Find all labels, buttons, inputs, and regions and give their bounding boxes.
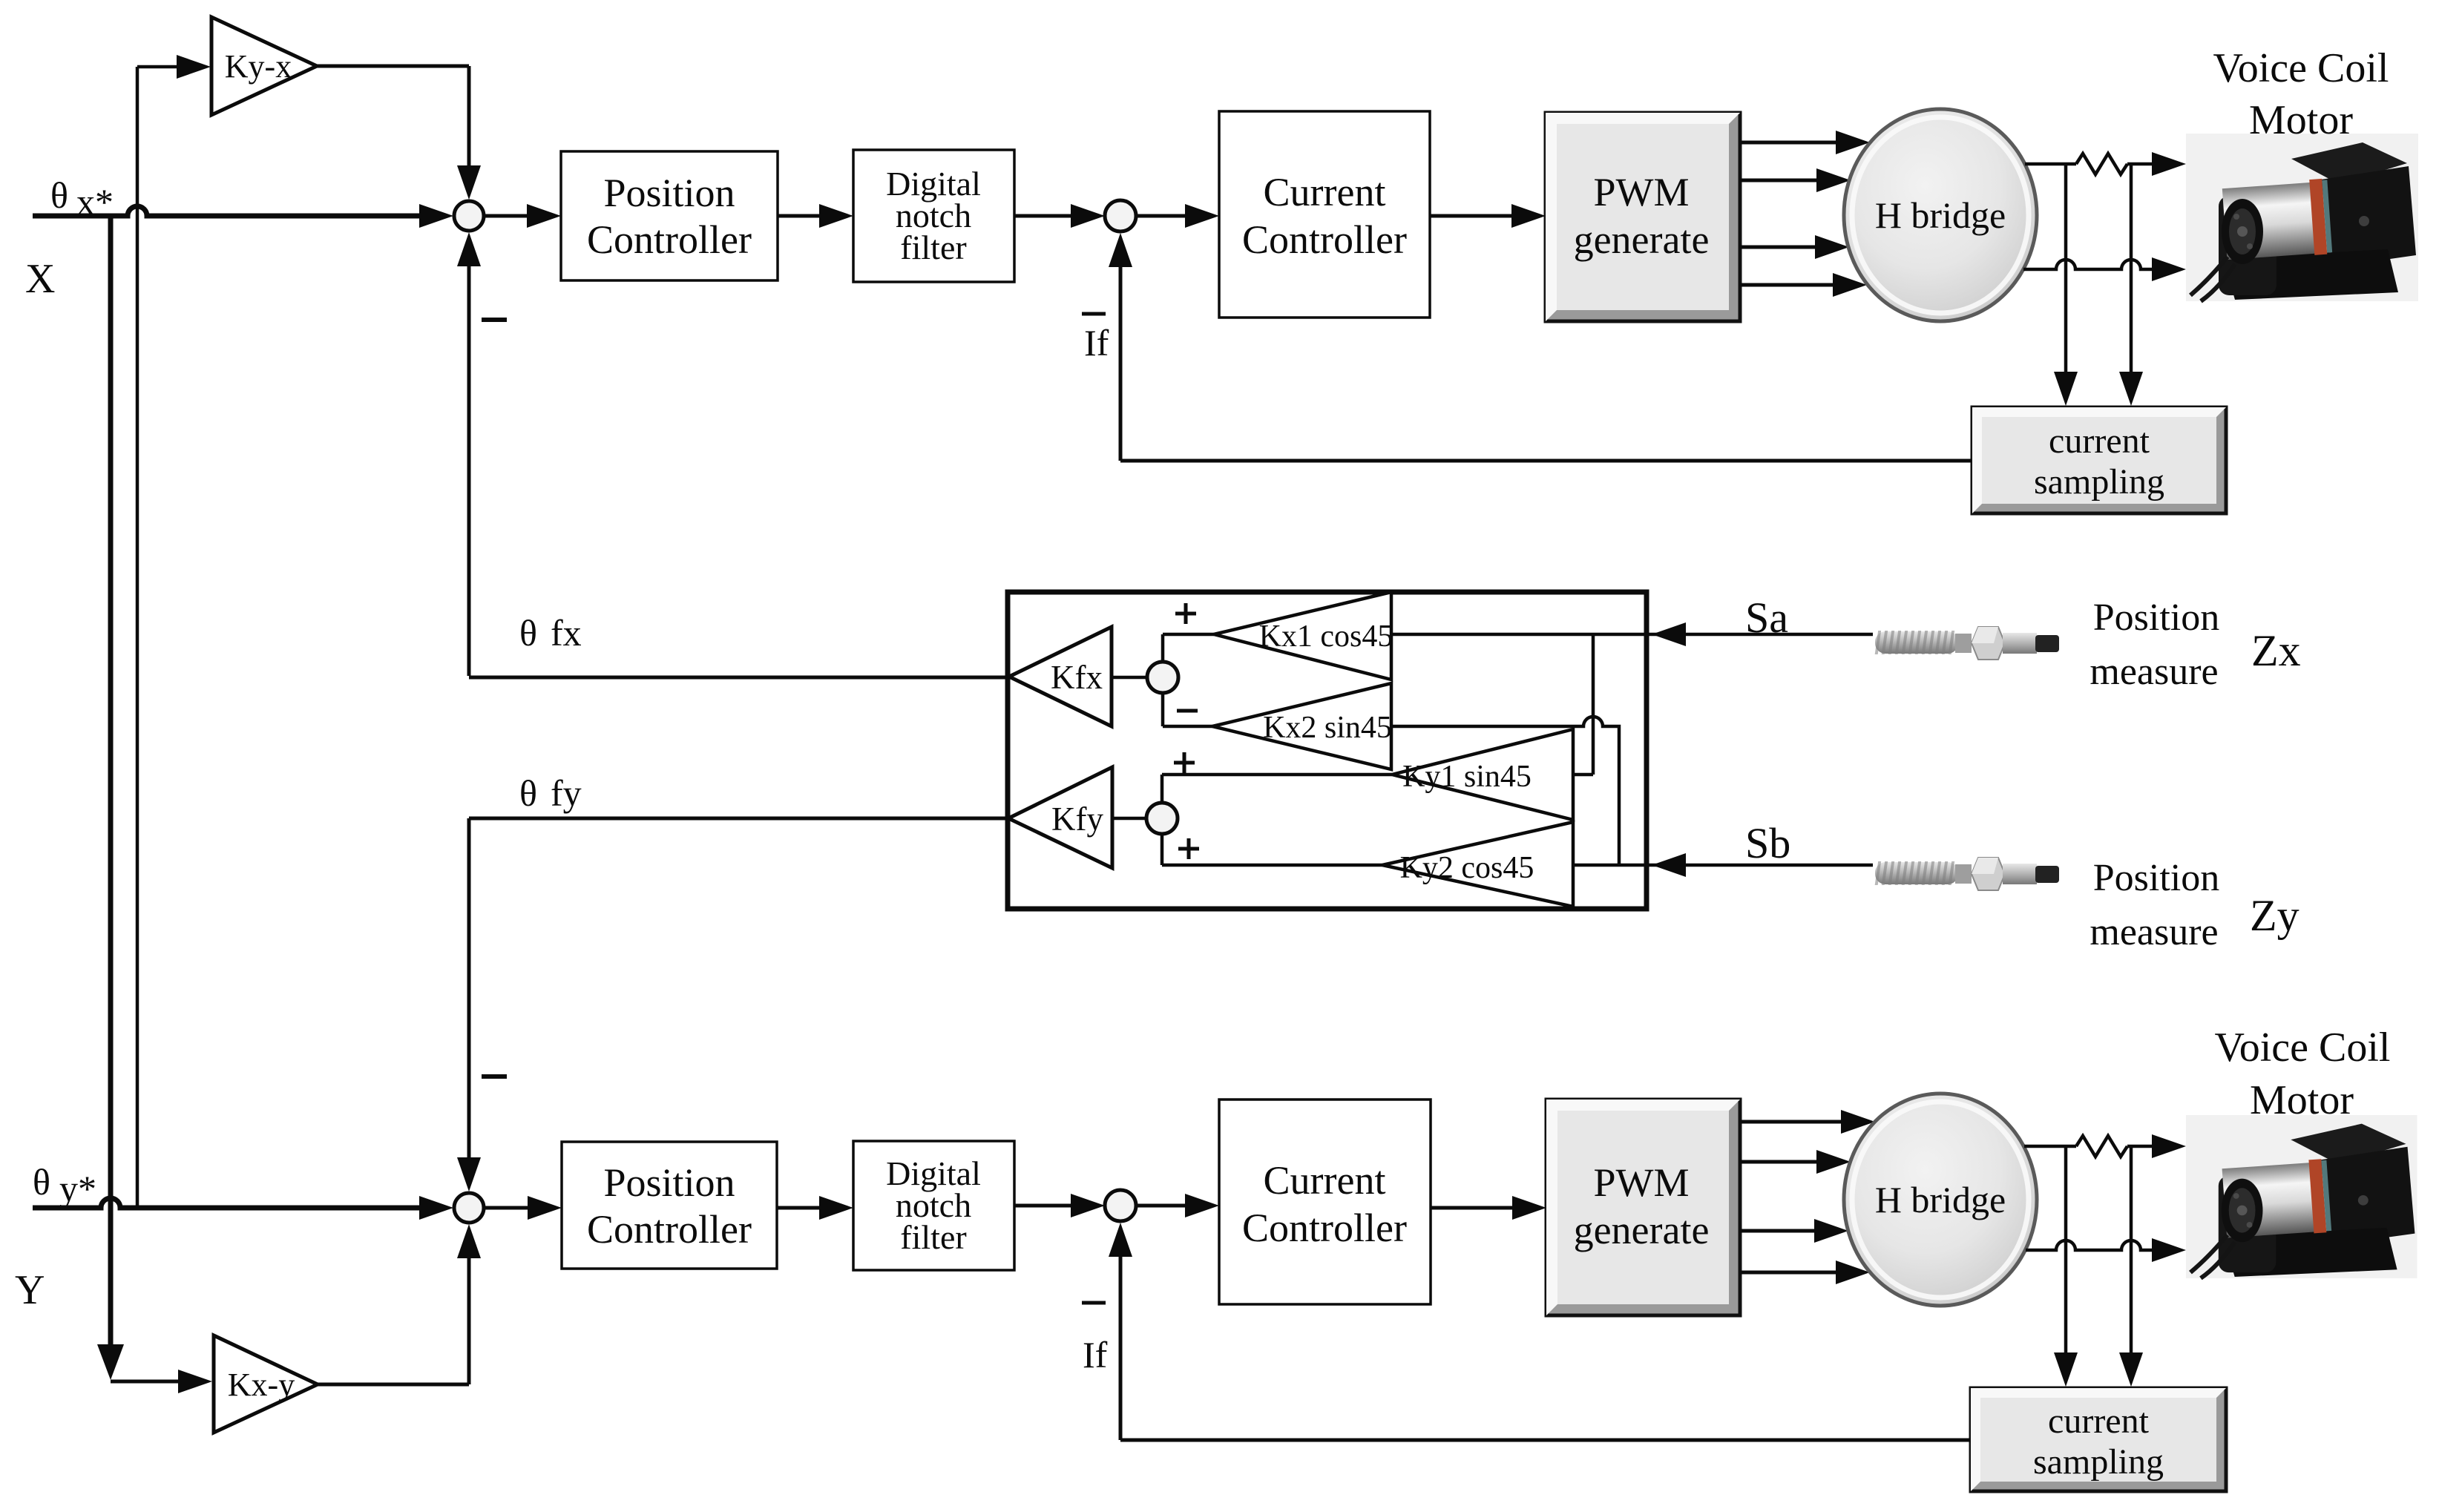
arrow Sa into decoupling box — [1652, 622, 1686, 646]
wire Kfx to summing circle A — [1112, 676, 1148, 680]
svg-text:sampling: sampling — [2034, 462, 2164, 502]
wire θy* tap up to Ky-x input — [136, 67, 139, 1208]
wire notch filter to summing junction 2 — [1014, 214, 1072, 218]
wire current sampling feedback to summing junction 2 (X) — [1120, 459, 1972, 463]
block H bridge (X) — [1844, 109, 2037, 321]
wire H bridge bottom output to motor (X) — [2023, 260, 2153, 269]
svg-text:filter: filter — [900, 1218, 966, 1256]
wire Current Controller to PWM (X) — [1430, 214, 1513, 218]
label minus Kx2 — [1177, 709, 1198, 713]
summing junction 5 (Y current) — [1105, 1190, 1136, 1221]
wire If feedback up into summing junction 2 — [1119, 265, 1123, 461]
svg-text:measure: measure — [2090, 911, 2218, 953]
block PWM generate (Y) — [1546, 1100, 1740, 1315]
label minus at summing junction 1 — [482, 318, 507, 322]
wire PWM to H bridge line 4 (X) — [1740, 283, 1834, 287]
summing junction 4 (Y position) — [454, 1193, 484, 1223]
wire summing junction 2 to Current Controller — [1136, 214, 1186, 218]
svg-text:Position: Position — [2093, 857, 2220, 899]
wire θy* reference input (Y) — [33, 1198, 420, 1208]
svg-text:θ: θ — [33, 1161, 50, 1203]
wire summing junction 5 to Current Controller (Y) — [1136, 1204, 1186, 1208]
gain Kx1 cos45 triangle — [1214, 592, 1391, 680]
svg-text:H bridge: H bridge — [1875, 1179, 2006, 1220]
svg-text:H bridge: H bridge — [1875, 194, 2006, 236]
gain Kx-y triangle — [214, 1335, 318, 1433]
wire current sense drop 1 (Y) — [2064, 1146, 2068, 1353]
wire Sa inside box to Kx1 — [1391, 633, 1684, 637]
arrow Sb into decoupling box — [1652, 853, 1686, 877]
svg-text:Motor: Motor — [2249, 97, 2353, 143]
svg-text:current: current — [2049, 421, 2150, 461]
svg-text:filter: filter — [900, 229, 966, 266]
wire If feedback up into summing junction 5 — [1119, 1255, 1123, 1440]
wire H bridge bottom output to motor (Y) — [2026, 1240, 2153, 1250]
svg-text:Position: Position — [2093, 596, 2220, 639]
svg-text:fx: fx — [551, 612, 582, 654]
svg-text:θ: θ — [519, 612, 537, 654]
wire junction θx* to cross-coupling trunk — [108, 216, 114, 219]
wire θfx from Kfx to X loop — [469, 676, 1008, 680]
summing junction 1 (X position) — [454, 201, 484, 231]
svg-text:Kfy: Kfy — [1051, 801, 1103, 838]
wire H bridge top output (Y) — [2024, 1145, 2076, 1148]
wire circle B plus input from Ky2 — [1161, 834, 1164, 865]
svg-text:measure: measure — [2090, 651, 2218, 693]
gain Ky1 sin45 triangle — [1392, 729, 1573, 820]
svg-text:Kx2 sin45: Kx2 sin45 — [1263, 711, 1392, 745]
svg-text:Kx1 cos45: Kx1 cos45 — [1259, 619, 1394, 654]
block Current Controller (Y) — [1219, 1100, 1431, 1304]
svg-text:Ky-x: Ky-x — [225, 48, 292, 85]
wire Position Controller to notch filter (X) — [778, 214, 821, 218]
resistor (X) — [2076, 154, 2127, 174]
svg-text:Controller: Controller — [1242, 1206, 1407, 1250]
block H bridge (Y) — [1844, 1094, 2037, 1306]
wire feedback θfx up into summing junction 1 — [467, 263, 471, 676]
block current sampling (X) — [1972, 407, 2226, 513]
svg-text:X: X — [25, 256, 55, 302]
svg-text:generate: generate — [1574, 217, 1710, 262]
svg-text:Controller: Controller — [587, 217, 752, 262]
wire Sa from sensor — [1684, 633, 1873, 637]
block Position Controller (Y) — [562, 1142, 777, 1269]
gain Ky-x triangle — [211, 17, 317, 115]
svg-text:generate: generate — [1574, 1208, 1710, 1252]
wire Sb from sensor — [1684, 864, 1873, 867]
svg-text:Zx: Zx — [2251, 626, 2301, 675]
wire current sense drop 1 (X) — [2064, 164, 2068, 372]
wire Kx-y output to summing junction 4 — [318, 1383, 469, 1387]
block current sampling (Y) — [1971, 1388, 2226, 1491]
svg-text:Controller: Controller — [1242, 217, 1407, 262]
svg-text:Zy: Zy — [2250, 891, 2300, 940]
icon Voice Coil Motor (photo, Y) — [2186, 1115, 2417, 1278]
summing junction 2 (X current) — [1105, 200, 1136, 231]
svg-text:If: If — [1083, 1334, 1108, 1375]
wire θfy down to summing junction 4 — [467, 818, 471, 1159]
gain Kfy triangle — [1008, 767, 1112, 868]
wire θx* reference input (X) — [33, 206, 420, 216]
svg-text:Sb: Sb — [1745, 819, 1790, 867]
block Digital notch filter (Y) — [853, 1141, 1014, 1270]
svg-text:Ky1 sin45: Ky1 sin45 — [1402, 760, 1532, 794]
wire circle A minus input from Kx2 — [1161, 693, 1165, 726]
label minus at summing junction 4 — [482, 1074, 507, 1079]
block Position Controller (X) — [561, 151, 778, 280]
wire Ky-x input horizontal — [137, 65, 178, 69]
svg-text:Voice Coil: Voice Coil — [2215, 1025, 2391, 1071]
svg-text:Position: Position — [603, 1160, 735, 1205]
wire summing junction 1 to Position Controller — [484, 214, 528, 218]
wire Sb inside box to Ky2 — [1573, 864, 1684, 867]
wire Kx2 input with hop to Sb branch — [1391, 717, 1619, 865]
wire summing junction 4 to Position Controller (Y) — [484, 1206, 528, 1210]
svg-text:θ: θ — [519, 772, 537, 814]
label plus Ky2 — [1178, 847, 1199, 851]
wire current sense drop 2 (Y) — [2130, 1146, 2133, 1353]
wire resistor to motor (Y) — [2127, 1145, 2152, 1148]
wire resistor to motor (X) — [2127, 162, 2152, 166]
wire PWM to H bridge line 3 (Y) — [1740, 1229, 1816, 1233]
svg-text:Kx-y: Kx-y — [228, 1367, 295, 1403]
block PWM generate (X) — [1546, 113, 1740, 321]
svg-text:Motor: Motor — [2250, 1077, 2354, 1123]
block Current Controller (X) — [1219, 111, 1430, 318]
svg-text:Kfx: Kfx — [1051, 659, 1103, 696]
summing circle A — [1147, 662, 1178, 693]
wire circle A plus input from Kx1 — [1161, 634, 1165, 662]
svg-text:Y: Y — [15, 1267, 45, 1313]
wire cross-coupling trunk θx* down to Kx-y — [108, 217, 114, 1346]
svg-text:Ky2 cos45: Ky2 cos45 — [1400, 851, 1534, 885]
wire Ky-x output to summing junction 1 — [317, 65, 469, 68]
block decoupling box — [1008, 592, 1647, 909]
gain Kfx triangle — [1009, 627, 1112, 726]
wire PWM to H bridge line 4 (Y) — [1740, 1271, 1837, 1275]
wire PWM to H bridge line 1 (X) — [1740, 141, 1837, 145]
svg-text:Position: Position — [603, 171, 735, 215]
svg-text:current: current — [2048, 1401, 2150, 1441]
svg-text:Voice Coil: Voice Coil — [2213, 45, 2389, 91]
icon position sensor A (photo) — [1875, 627, 2059, 660]
wire notch filter to summing junction 5 — [1014, 1204, 1072, 1208]
icon position sensor B (photo) — [1875, 858, 2059, 890]
wire PWM to H bridge line 3 (X) — [1740, 246, 1816, 249]
wire Current Controller to PWM (Y) — [1431, 1206, 1513, 1210]
wire current sampling feedback to summing junction 5 (Y) — [1120, 1439, 1971, 1442]
svg-text:fy: fy — [551, 772, 582, 814]
svg-text:PWM: PWM — [1593, 170, 1689, 214]
wire trunk elbow to Kx-y input — [111, 1380, 178, 1384]
label minus If (X) — [1082, 312, 1106, 316]
svg-text:θ: θ — [50, 174, 68, 216]
resistor (Y) — [2076, 1136, 2127, 1157]
svg-text:If: If — [1084, 322, 1109, 364]
wire PWM to H bridge line 2 (Y) — [1740, 1160, 1818, 1164]
arrow trunk down — [97, 1344, 124, 1380]
wire Kfy to summing circle B — [1112, 817, 1146, 821]
label plus Ky1 — [1174, 761, 1195, 765]
svg-text:Current: Current — [1264, 170, 1386, 214]
wire θfy from Kfy to Y loop — [469, 817, 1008, 821]
wire PWM to H bridge line 2 (X) — [1740, 179, 1818, 183]
wire Position Controller to notch filter (Y) — [777, 1206, 821, 1210]
svg-text:Controller: Controller — [587, 1207, 752, 1252]
wire current sense drop 2 (X) — [2130, 164, 2133, 372]
wire circle B plus input from Ky1 — [1161, 775, 1164, 803]
svg-text:y*: y* — [59, 1168, 96, 1209]
icon Voice Coil Motor (photo, X) — [2186, 134, 2418, 301]
label plus Kx1 — [1175, 612, 1196, 616]
wire H bridge top output (X) — [2025, 162, 2076, 166]
wire PWM to H bridge line 1 (Y) — [1740, 1120, 1842, 1124]
svg-text:Current: Current — [1264, 1158, 1386, 1203]
gain Ky2 cos45 triangle — [1382, 822, 1573, 907]
wire Sa branch down to Ky1 — [1592, 634, 1595, 775]
svg-text:PWM: PWM — [1593, 1160, 1689, 1205]
block Digital notch filter (X) — [853, 150, 1014, 282]
label minus If (Y) — [1082, 1301, 1106, 1305]
summing circle B — [1146, 803, 1178, 834]
svg-text:sampling: sampling — [2033, 1442, 2164, 1482]
gain Kx2 sin45 triangle — [1212, 683, 1391, 769]
svg-text:Sa: Sa — [1745, 594, 1788, 642]
